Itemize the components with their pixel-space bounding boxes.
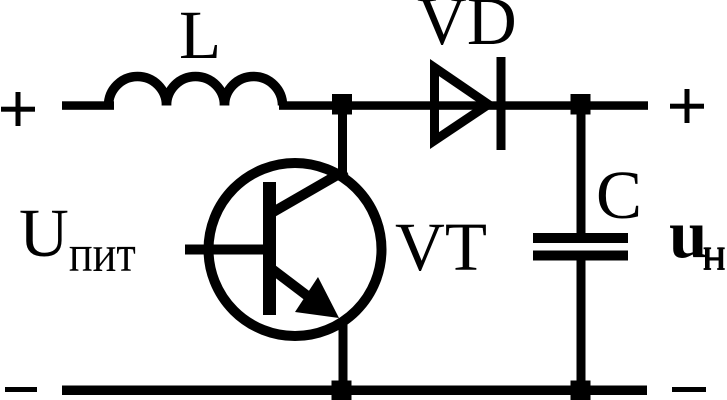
- diode VD: [430, 57, 506, 150]
- wire (node A to diode anode): [351, 101, 434, 110]
- svg-text:VT: VT: [395, 209, 487, 285]
- wire (capacitor to ground rail): [577, 260, 586, 394]
- node C (emitter / ground junction): [332, 381, 352, 400]
- svg-text:VD: VD: [417, 0, 517, 59]
- wire (diode cathode to node B): [501, 101, 576, 110]
- minus terminal (input −): [5, 387, 37, 392]
- wire (node B to capacitor): [577, 110, 586, 234]
- transistor VT: [185, 163, 382, 336]
- svg-text:L: L: [179, 0, 221, 73]
- wire (transistor emitter to ground rail): [339, 318, 348, 394]
- inductor L: [109, 77, 283, 106]
- svg-text:Uпит: Uпит: [19, 195, 136, 283]
- wire (inductor to node A): [279, 101, 343, 110]
- wire (input + to inductor): [62, 101, 114, 110]
- plus terminal (output +): [670, 89, 704, 123]
- ground rail (bottom): [62, 386, 647, 396]
- svg-text:C: C: [596, 157, 642, 233]
- wire (node B to output +): [586, 101, 648, 110]
- minus terminal (output −): [672, 387, 706, 392]
- svg-text:u: u: [669, 196, 707, 272]
- plus terminal (input +): [1, 92, 35, 126]
- node B (output junction): [571, 94, 591, 115]
- node A (collector junction): [332, 94, 352, 115]
- node D (capacitor / ground junction): [571, 381, 591, 400]
- wire (node A to transistor collector): [338, 110, 347, 178]
- capacitor C: [533, 233, 628, 261]
